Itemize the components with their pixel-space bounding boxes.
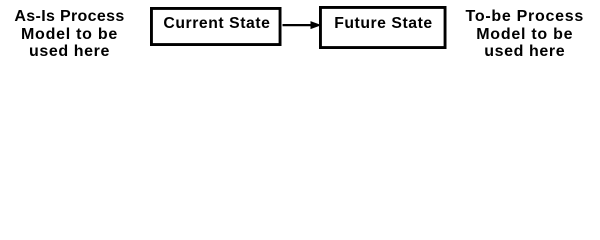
arrow from Current State to Future State [280,18,324,34]
box Future State [317,4,449,52]
right label: To-be Process Model to be used here [455,8,595,61]
label Future State [334,15,433,33]
label Current State [163,15,270,33]
box Current State [148,5,284,49]
left label: As-Is Process Model to be used here [0,8,139,61]
